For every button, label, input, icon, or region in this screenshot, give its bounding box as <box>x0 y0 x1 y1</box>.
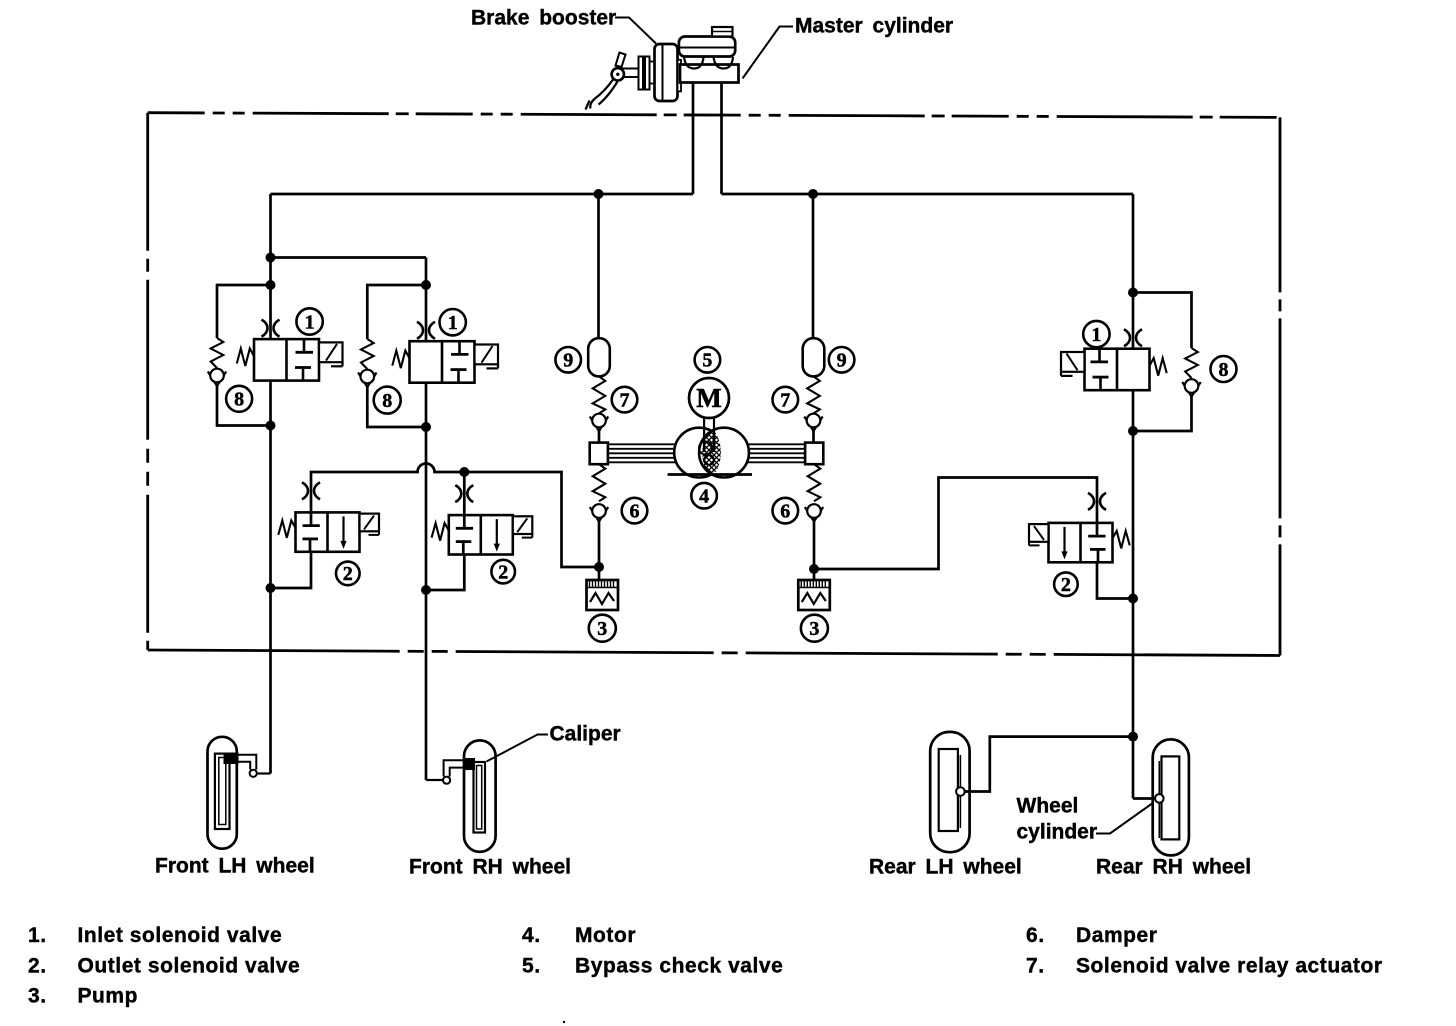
node: A branch to B <box>266 253 276 263</box>
node: rear distribution / right pump column <box>808 189 818 199</box>
node: front distribution / left pump column <box>594 189 604 199</box>
svg-text:8: 8 <box>1219 359 1229 381</box>
svg-text:3: 3 <box>597 618 607 640</box>
spring of bypass check valve 8 (rear) <box>1185 348 1198 378</box>
check valve 6 (right) <box>805 504 823 521</box>
label circle 3 (right) <box>801 615 828 642</box>
wire: check 6 to pump (left) <box>598 520 601 580</box>
front RH wheel <box>464 740 496 851</box>
svg-text:Front RH wheel: Front RH wheel <box>409 856 571 879</box>
leader: brake booster <box>615 18 656 44</box>
svg-text:6.: 6. <box>1026 924 1045 947</box>
svg-text:Solenoid valve relay actuator: Solenoid valve relay actuator <box>1076 954 1383 977</box>
wire: left pump column upper <box>597 194 600 338</box>
label circle 1 (front RH) <box>440 309 466 335</box>
svg-text:6: 6 <box>630 500 640 522</box>
damper capsule 9 (left) <box>588 338 610 376</box>
inlet solenoid valve 1 (rear, mirrored) <box>1061 329 1167 390</box>
svg-text:2: 2 <box>1061 574 1071 596</box>
svg-text:8: 8 <box>382 390 392 412</box>
wire: branch A to B <box>271 256 427 259</box>
wire: outlet valve front LH bottom connector <box>271 552 312 588</box>
svg-text:7: 7 <box>620 389 630 411</box>
wire: rear distribution line <box>722 193 1134 196</box>
svg-text:5.: 5. <box>522 954 541 977</box>
label circle 2 (front LH) <box>336 562 360 586</box>
check valve 7 (right) <box>804 414 822 431</box>
wire: master cylinder left output pipe <box>692 82 695 194</box>
wire: outlet valve rear feed line <box>814 478 1097 570</box>
damper capsule 9 (right) <box>803 338 825 376</box>
svg-text:Bypass check valve: Bypass check valve <box>575 954 783 977</box>
check valve 8 (front RH) <box>358 370 376 387</box>
svg-text:Rear RH wheel: Rear RH wheel <box>1096 856 1251 879</box>
node: rear wheels junction <box>1128 732 1138 742</box>
piston cylinder stripes (right) <box>742 444 805 462</box>
leader: caliper <box>487 735 549 762</box>
pump base line <box>668 473 752 476</box>
leader: wheel cylinder <box>1096 803 1154 834</box>
svg-text:8: 8 <box>234 389 244 411</box>
check valve 8 (rear) <box>1182 379 1200 396</box>
wheel cylinder (rear LH) <box>956 787 965 796</box>
rear RH wheel <box>1153 739 1189 855</box>
svg-text:Damper: Damper <box>1076 924 1158 947</box>
wire: check 7 to piston (right) <box>812 430 815 444</box>
svg-text:Front LH wheel: Front LH wheel <box>155 855 315 878</box>
svg-text:1: 1 <box>305 311 315 333</box>
wire: bypass loop around inlet valve front LH <box>217 285 271 338</box>
caliper (front RH) <box>464 758 476 770</box>
master cylinder <box>679 27 739 83</box>
label circle 2 (rear) <box>1054 572 1078 596</box>
label circle 4 <box>691 483 717 509</box>
front LH wheel <box>208 737 237 849</box>
wire: rear LH wheel to node D <box>965 737 1133 792</box>
spring of bypass check valve 8 (front LH) <box>211 338 224 368</box>
svg-text:Wheel: Wheel <box>1017 795 1079 818</box>
svg-text:1.: 1. <box>28 924 47 947</box>
label circle 5 <box>695 347 721 373</box>
motor M circle <box>689 378 729 418</box>
label circle 6 (left) <box>622 498 648 524</box>
pump 3 (left) <box>587 580 619 610</box>
label circle 2 (front RH) <box>491 560 515 584</box>
svg-text:M: M <box>696 383 721 413</box>
spring of damper 6 (left) <box>593 464 606 501</box>
wire: bypass loop lower (front LH) <box>217 385 271 426</box>
outlet solenoid valve 2 (rear, mirrored) <box>1029 493 1130 562</box>
wire: check 7 to piston (left) <box>598 430 601 444</box>
label circle 8 (front RH) <box>374 387 401 414</box>
outlet solenoid valve 2 (front LH) <box>278 482 379 551</box>
node: D bypass top <box>1128 288 1138 298</box>
label circle 8 (front LH) <box>226 386 252 412</box>
wire: front distribution line <box>271 193 694 196</box>
svg-text:3.: 3. <box>28 985 47 1008</box>
svg-text:9: 9 <box>563 350 573 372</box>
outlet solenoid valve 2 (front RH) <box>432 485 533 554</box>
svg-text:4.: 4. <box>522 924 541 947</box>
motor shaft <box>703 418 705 453</box>
label circle 6 (right) <box>773 498 799 524</box>
node: left pump suction <box>594 562 604 572</box>
wire: outlet valve front RH bottom connector <box>426 555 464 591</box>
svg-text:Rear LH wheel: Rear LH wheel <box>869 856 1022 879</box>
legend <box>28 924 1383 1008</box>
node: A bypass top <box>266 280 276 290</box>
label circle 1 (rear) <box>1083 321 1109 347</box>
pump 3 (right) <box>798 580 830 610</box>
wire: front RH main line (node B) <box>425 258 428 781</box>
node: B bypass top <box>421 280 431 290</box>
label circle 8 (rear) <box>1211 356 1237 382</box>
wire: hose to node B <box>426 779 443 781</box>
svg-text:1: 1 <box>448 312 458 334</box>
check valve 8 (front LH) <box>208 369 226 386</box>
spring of relay check 7 (right) <box>807 376 820 413</box>
check valve 6 (left) <box>590 504 608 521</box>
wire: bypass loop lower (front RH) <box>367 386 426 428</box>
svg-text:Motor: Motor <box>575 924 636 947</box>
wire: node D to rear RH wheel cylinder <box>1133 797 1155 800</box>
node: D bypass bottom <box>1128 426 1138 436</box>
brake booster <box>639 44 682 101</box>
node: A outlet valve return <box>266 583 276 593</box>
leader: master cylinder <box>743 27 794 79</box>
brake pedal <box>586 53 639 110</box>
node: B bypass bottom <box>421 422 431 432</box>
svg-text:Pump: Pump <box>78 985 139 1008</box>
dash-dot enclosure: bottom border <box>148 650 1280 656</box>
svg-text:9: 9 <box>837 350 847 372</box>
wire: bypass loop around inlet valve rear <box>1133 293 1192 349</box>
label circle 9 (left) <box>555 347 581 373</box>
pump piston block (left) <box>590 443 608 465</box>
wire: master cylinder right output pipe <box>720 82 723 194</box>
svg-text:2: 2 <box>343 563 353 585</box>
wire: bypass loop around inlet valve front RH <box>367 285 426 339</box>
node: right pump suction <box>809 564 819 574</box>
svg-text:7: 7 <box>780 389 790 411</box>
spring of relay check 7 (left) <box>593 376 606 413</box>
wire: front LH main line (node A) <box>269 194 272 774</box>
brake hose (front RH) <box>443 760 464 784</box>
wire: bypass loop lower (rear) <box>1133 395 1192 431</box>
caliper (front LH) <box>224 753 239 765</box>
svg-text:cylinder: cylinder <box>1017 821 1098 844</box>
label circle 7 (left) <box>612 387 638 413</box>
stray dot <box>563 1021 565 1023</box>
node: D outlet valve return <box>1128 594 1138 604</box>
dash-dot enclosure: top border <box>148 113 1280 118</box>
wire: outlet valve rear bottom connector <box>1097 561 1133 598</box>
wire: outlet valves feed line (front), hops over node B <box>311 464 599 568</box>
svg-text:4: 4 <box>699 486 709 508</box>
label circle 1 (front LH) <box>296 308 322 334</box>
svg-text:Caliper: Caliper <box>550 723 621 746</box>
pump piston block (right) <box>805 443 823 465</box>
svg-text:2: 2 <box>498 561 508 583</box>
dash-dot enclosure: right border <box>1279 117 1282 655</box>
inlet solenoid valve 1 (front RH) <box>392 322 498 383</box>
label circle 9 (right) <box>829 347 855 373</box>
label circle 3 (left) <box>589 615 616 642</box>
label circle 7 (right) <box>773 387 799 413</box>
wire: outlet valve front RH top connector <box>463 472 466 515</box>
dash-dot enclosure: left border <box>146 113 149 650</box>
svg-text:Brake booster: Brake booster <box>471 7 616 30</box>
spring of bypass check valve 8 (front RH) <box>361 339 374 369</box>
svg-text:Inlet solenoid valve: Inlet solenoid valve <box>78 924 283 947</box>
piston cylinder stripes (left) <box>608 444 681 462</box>
wire: hose to node A <box>257 772 271 774</box>
wire: rear main line (node D) <box>1132 194 1135 799</box>
svg-text:5: 5 <box>702 350 712 372</box>
node: outlet feed junction <box>459 467 469 477</box>
rear LH wheel <box>930 732 969 852</box>
svg-text:Master cylinder: Master cylinder <box>795 15 953 38</box>
svg-text:2.: 2. <box>28 954 47 977</box>
motor 4 eccentric cams <box>674 387 749 519</box>
svg-text:3: 3 <box>809 618 819 640</box>
svg-text:Outlet solenoid valve: Outlet solenoid valve <box>78 954 301 977</box>
brake hose (front LH) <box>238 755 257 777</box>
inlet solenoid valve 1 (front LH) <box>237 320 343 381</box>
svg-text:6: 6 <box>780 500 790 522</box>
svg-text:7.: 7. <box>1026 954 1045 977</box>
check valve 7 (left) <box>590 414 608 431</box>
node: B outlet valve return <box>421 585 431 595</box>
svg-text:1: 1 <box>1091 324 1101 346</box>
wire: check 6 to pump (right) <box>813 520 816 580</box>
wire: right pump column upper <box>812 194 815 338</box>
node: A bypass bottom <box>266 421 276 431</box>
wheel cylinder (rear RH) <box>1155 794 1164 803</box>
spring of damper 6 (right) <box>808 464 821 501</box>
